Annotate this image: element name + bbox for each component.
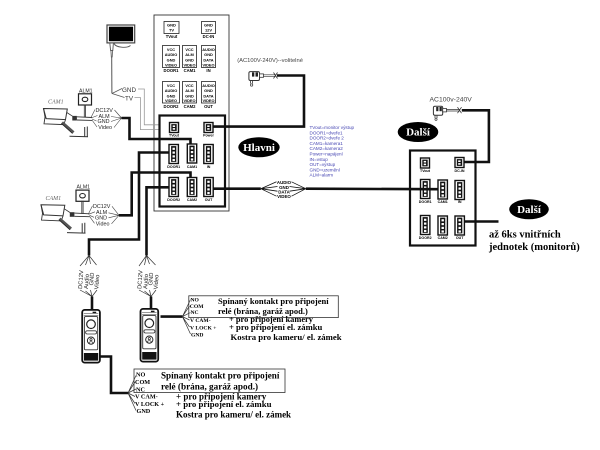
svg-text:DC-IN: DC-IN	[203, 34, 215, 39]
svg-text:TVout=monitor výstup: TVout=monitor výstup	[310, 125, 355, 130]
svg-text:Video: Video	[94, 275, 101, 290]
svg-text:CAM1: CAM1	[48, 100, 64, 106]
svg-text:Další: Další	[517, 204, 542, 216]
svg-text:CAM2: CAM2	[438, 236, 448, 240]
svg-text:+ pro připojení el. zámku: + pro připojení el. zámku	[176, 399, 272, 409]
svg-text:COM: COM	[190, 304, 204, 310]
svg-text:DOOR2: DOOR2	[419, 236, 432, 240]
fan lines door2 contacts	[182, 300, 190, 335]
svg-text:Další: Další	[406, 127, 431, 139]
svg-text:OUT=výstup: OUT=výstup	[310, 162, 336, 167]
camera CAM1 assembly	[44, 100, 93, 137]
svg-text:OUT: OUT	[204, 104, 213, 109]
connector DOOR1 (unit2)	[421, 180, 430, 199]
svg-text:CAM2: CAM2	[184, 104, 197, 109]
svg-text:CAM1: CAM1	[46, 196, 62, 202]
connector DC-IN (unit2)	[455, 158, 464, 168]
camera2 wire fan labels	[89, 204, 120, 227]
svg-text:IN: IN	[207, 165, 211, 169]
svg-text:+ pro připojení el. zámku: + pro připojení el. zámku	[229, 322, 323, 332]
door2 contact labels	[190, 298, 217, 339]
main unit box (Hlavni monitor)	[160, 116, 226, 207]
svg-text:Video: Video	[98, 125, 112, 131]
wire TV signal (monitor to TVout pin)	[135, 98, 170, 130]
svg-text:DOOR2=dveře 2: DOOR2=dveře 2	[310, 136, 345, 141]
door1 riser fan labels (DC12V Audio GND Video rotated)	[78, 256, 101, 297]
svg-text:CAM2: CAM2	[187, 198, 197, 202]
TV monitor	[107, 25, 135, 94]
svg-text:V LOCK +: V LOCK +	[190, 325, 216, 331]
svg-text:CAM1: CAM1	[187, 165, 197, 169]
svg-text:VIDEO: VIDEO	[165, 98, 177, 103]
svg-text:CAM1=kamera1: CAM1=kamera1	[310, 141, 344, 146]
Dalsi ellipse label 1	[398, 122, 439, 142]
svg-text:relé (brána, garáž apod.): relé (brána, garáž apod.)	[161, 382, 258, 392]
door2 relay description text	[218, 296, 342, 342]
alarm sensor ALM1 (top)	[79, 88, 93, 117]
svg-text:DC-IN: DC-IN	[455, 169, 465, 173]
camera1 wire fan labels	[91, 108, 122, 131]
wire TV GND (monitor to TVout pin)	[138, 89, 170, 125]
svg-text:DOOR1=dveře1: DOOR1=dveře1	[310, 130, 344, 135]
alarm sensor ALM1 (bottom)	[76, 185, 90, 214]
wire door2 to relay contact fan	[161, 315, 183, 318]
wire Power to AC plug	[213, 76, 304, 127]
wire door2 fan to door station 2	[150, 297, 153, 309]
svg-text:TV: TV	[125, 96, 134, 103]
svg-text:VIDEO: VIDEO	[183, 63, 195, 68]
svg-text:NC: NC	[136, 386, 145, 393]
connector CAM1 (unit2)	[438, 180, 447, 199]
svg-text:Video: Video	[154, 275, 161, 290]
connector OUT (unit2)	[455, 216, 464, 235]
svg-text:Spínaný kontakt pro připojení: Spínaný kontakt pro připojení	[218, 296, 329, 306]
camera CAM2 assembly	[41, 196, 90, 233]
door1 relay description text	[161, 371, 291, 420]
svg-text:DOOR2: DOOR2	[167, 198, 180, 202]
connector OUT (main)	[204, 178, 213, 197]
connector IN (unit2)	[455, 181, 464, 200]
svg-text:GND: GND	[137, 408, 151, 415]
connector DOOR1 (main)	[169, 145, 178, 164]
svg-text:GND: GND	[191, 332, 203, 338]
svg-text:OUT: OUT	[205, 198, 213, 202]
svg-text:Spínaný kontakt pro připojení: Spínaný kontakt pro připojení	[161, 371, 280, 381]
wire door1 to relay contact fan	[100, 357, 128, 394]
svg-text:VIDEO: VIDEO	[165, 63, 177, 68]
svg-text:AC100v-240V: AC100v-240V	[430, 96, 473, 103]
wire DOOR2 connector to door station 2	[147, 187, 170, 255]
svg-text:VIDEO: VIDEO	[202, 63, 214, 68]
outer panel box (pin-label legend panel)	[154, 15, 229, 211]
svg-text:IN: IN	[458, 200, 462, 204]
svg-text:NC: NC	[191, 310, 199, 316]
pin label box TV-out	[164, 22, 179, 40]
door station 1	[82, 310, 100, 363]
svg-text:V LOCK +: V LOCK +	[135, 401, 165, 408]
pin label box DOOR1	[163, 46, 180, 74]
door2 relay text box	[189, 296, 338, 318]
svg-text:12V: 12V	[205, 28, 212, 33]
svg-text:(AC100V-240V)--volitelné: (AC100V-240V)--volitelné	[237, 58, 303, 64]
wire DOOR1 connector to door station 1	[89, 153, 169, 256]
connector CAM1 (main)	[187, 144, 196, 163]
connector TVout (main)	[170, 123, 179, 133]
pin label box DOOR2	[163, 82, 180, 109]
svg-text:Power: Power	[203, 134, 214, 138]
svg-text:COM: COM	[135, 379, 150, 386]
pin label box CAM1	[183, 46, 197, 74]
svg-text:OUT: OUT	[456, 236, 464, 240]
svg-text:CAM1: CAM1	[184, 68, 197, 73]
svg-text:CAM2=kamera2: CAM2=kamera2	[310, 146, 344, 151]
wire camera1 to CAM1 connector	[122, 118, 191, 145]
monitor cable fan lines	[112, 89, 125, 98]
blue legend text	[310, 125, 355, 178]
door1 contact labels	[135, 372, 165, 416]
svg-text:NO: NO	[191, 298, 200, 304]
connector DOOR2 (main)	[169, 178, 178, 197]
wire door1 fan to door station 1	[91, 297, 94, 310]
wire OUT (unit2) stub	[464, 220, 499, 223]
connector TVout (unit2)	[421, 158, 430, 168]
AC plug 2	[433, 106, 461, 120]
svg-text:Hlavni: Hlavni	[243, 142, 275, 154]
pin label box DC-IN	[202, 22, 216, 40]
svg-text:DOOR1: DOOR1	[167, 165, 180, 169]
svg-text:DOOR2: DOOR2	[164, 104, 180, 109]
second unit box (Dalsi monitor)	[410, 151, 476, 246]
wire bus to second unit DOOR1/CAM1	[306, 187, 438, 190]
wire OUT (main) to fan	[213, 187, 261, 190]
pin label box CAM2	[183, 82, 197, 109]
svg-text:NO: NO	[136, 372, 145, 379]
svg-text:DOOR1: DOOR1	[164, 68, 180, 73]
pin label box IN	[202, 46, 216, 74]
connector Power (main)	[204, 123, 213, 133]
door2 riser fan labels (DC12V Audio GND Video rotated)	[137, 256, 160, 297]
svg-text:Kostra pro kameru/ el. zámek: Kostra pro kameru/ el. zámek	[176, 410, 291, 420]
svg-text:TVout: TVout	[166, 34, 178, 39]
svg-text:V CAM-: V CAM-	[190, 318, 211, 324]
bus fan-out AUDIO GND DATA VIDEO	[261, 182, 306, 196]
svg-text:IN: IN	[206, 68, 210, 73]
connector DOOR2 (unit2)	[421, 216, 430, 235]
connector CAM2 (unit2)	[438, 216, 447, 235]
wire camera2 to CAM2 connector	[119, 173, 191, 216]
svg-text:DOOR1: DOOR1	[419, 200, 432, 204]
svg-text:VIDEO: VIDEO	[202, 98, 214, 103]
svg-text:ALM=alarm: ALM=alarm	[310, 173, 334, 178]
svg-text:CAM1: CAM1	[438, 200, 448, 204]
svg-text:TVout: TVout	[420, 169, 431, 173]
Hlavni ellipse label	[238, 137, 279, 157]
connector CAM2 (main)	[187, 178, 196, 197]
svg-text:IN=vstup: IN=vstup	[310, 157, 329, 162]
svg-text:jednotek (monitorů): jednotek (monitorů)	[488, 242, 580, 253]
Dalsi ellipse label 2	[509, 199, 549, 219]
door1 relay text box	[134, 369, 285, 393]
svg-text:GND=uzemění: GND=uzemění	[310, 167, 341, 172]
svg-text:VIDEO: VIDEO	[183, 98, 195, 103]
connector IN (main)	[204, 145, 213, 164]
note az 6ks vnitrnich jednotek	[488, 230, 580, 254]
svg-text:TV: TV	[169, 28, 174, 33]
svg-text:Video: Video	[96, 222, 110, 228]
svg-text:Kostra pro kameru/ el. zámek: Kostra pro kameru/ el. zámek	[231, 332, 342, 342]
wire AC plug 2 to DC-IN (unit2)	[462, 110, 489, 162]
svg-text:GND: GND	[122, 87, 136, 94]
svg-text:V CAM-: V CAM-	[135, 394, 158, 401]
AC plug 1	[249, 72, 278, 87]
door station 2	[141, 309, 159, 362]
svg-text:až 6ks vnitřních: až 6ks vnitřních	[489, 230, 561, 241]
svg-text:VIDEO: VIDEO	[277, 194, 291, 199]
fan lines door1 contacts	[128, 376, 136, 411]
pin label box OUT	[202, 82, 216, 109]
svg-text:TVout: TVout	[169, 134, 180, 138]
svg-text:Power=napájení: Power=napájení	[310, 152, 344, 157]
